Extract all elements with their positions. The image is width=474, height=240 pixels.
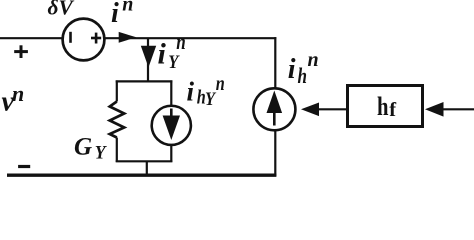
- svg-text:G: G: [74, 133, 92, 160]
- wire with arrow from right edge into h_f block: [425, 102, 474, 117]
- svg-text:n: n: [308, 49, 319, 71]
- svg-text:f: f: [389, 99, 397, 121]
- current source i_h^n: [253, 88, 295, 130]
- svg-text:n: n: [176, 29, 186, 54]
- wire current source i_h down to ground rail: [274, 130, 276, 177]
- svg-text:i: i: [158, 38, 167, 71]
- svg-text:n: n: [216, 73, 225, 95]
- svg-text:i: i: [288, 54, 296, 85]
- label v^n: [2, 81, 25, 118]
- ground rail (bottom wire): [7, 173, 276, 176]
- label 0V: [48, 0, 75, 19]
- voltage source V1 0V: [63, 19, 105, 61]
- wire node A down to parallel branch with arrow i_Y^n: [141, 38, 156, 82]
- label - (bottom terminal): [18, 165, 30, 168]
- svg-text:i: i: [187, 77, 195, 107]
- wire parallel box top: [116, 80, 173, 82]
- wire from voltage source to node A with current arrow i^n: [104, 32, 276, 43]
- svg-text:n: n: [12, 81, 24, 106]
- wire left input to voltage source: [0, 37, 62, 39]
- label + (top terminal): [14, 45, 28, 58]
- label i_Y^n: [158, 29, 186, 73]
- current source i_hY^n: [152, 80, 191, 162]
- svg-text:h: h: [377, 92, 389, 121]
- wire top right corner down to current source i_h: [274, 37, 276, 88]
- label G_Y: [74, 133, 108, 163]
- block h_f: [348, 86, 423, 127]
- svg-text:n: n: [122, 0, 133, 16]
- wire parallel box bottom: [116, 160, 173, 162]
- label h_f: [377, 92, 397, 121]
- wire stub from parallel box bottom to ground rail: [146, 161, 148, 175]
- label i_hY^n: [187, 73, 225, 110]
- svg-text:Y: Y: [168, 53, 180, 73]
- label i_h^n: [288, 49, 319, 88]
- svg-text:h: h: [298, 63, 308, 88]
- resistor G_Y: [110, 80, 125, 162]
- svg-text:i: i: [111, 0, 119, 29]
- label i^n: [111, 0, 133, 29]
- svg-text:δV: δV: [48, 0, 75, 19]
- wire with arrow from h_f block into current source i_h: [301, 103, 346, 117]
